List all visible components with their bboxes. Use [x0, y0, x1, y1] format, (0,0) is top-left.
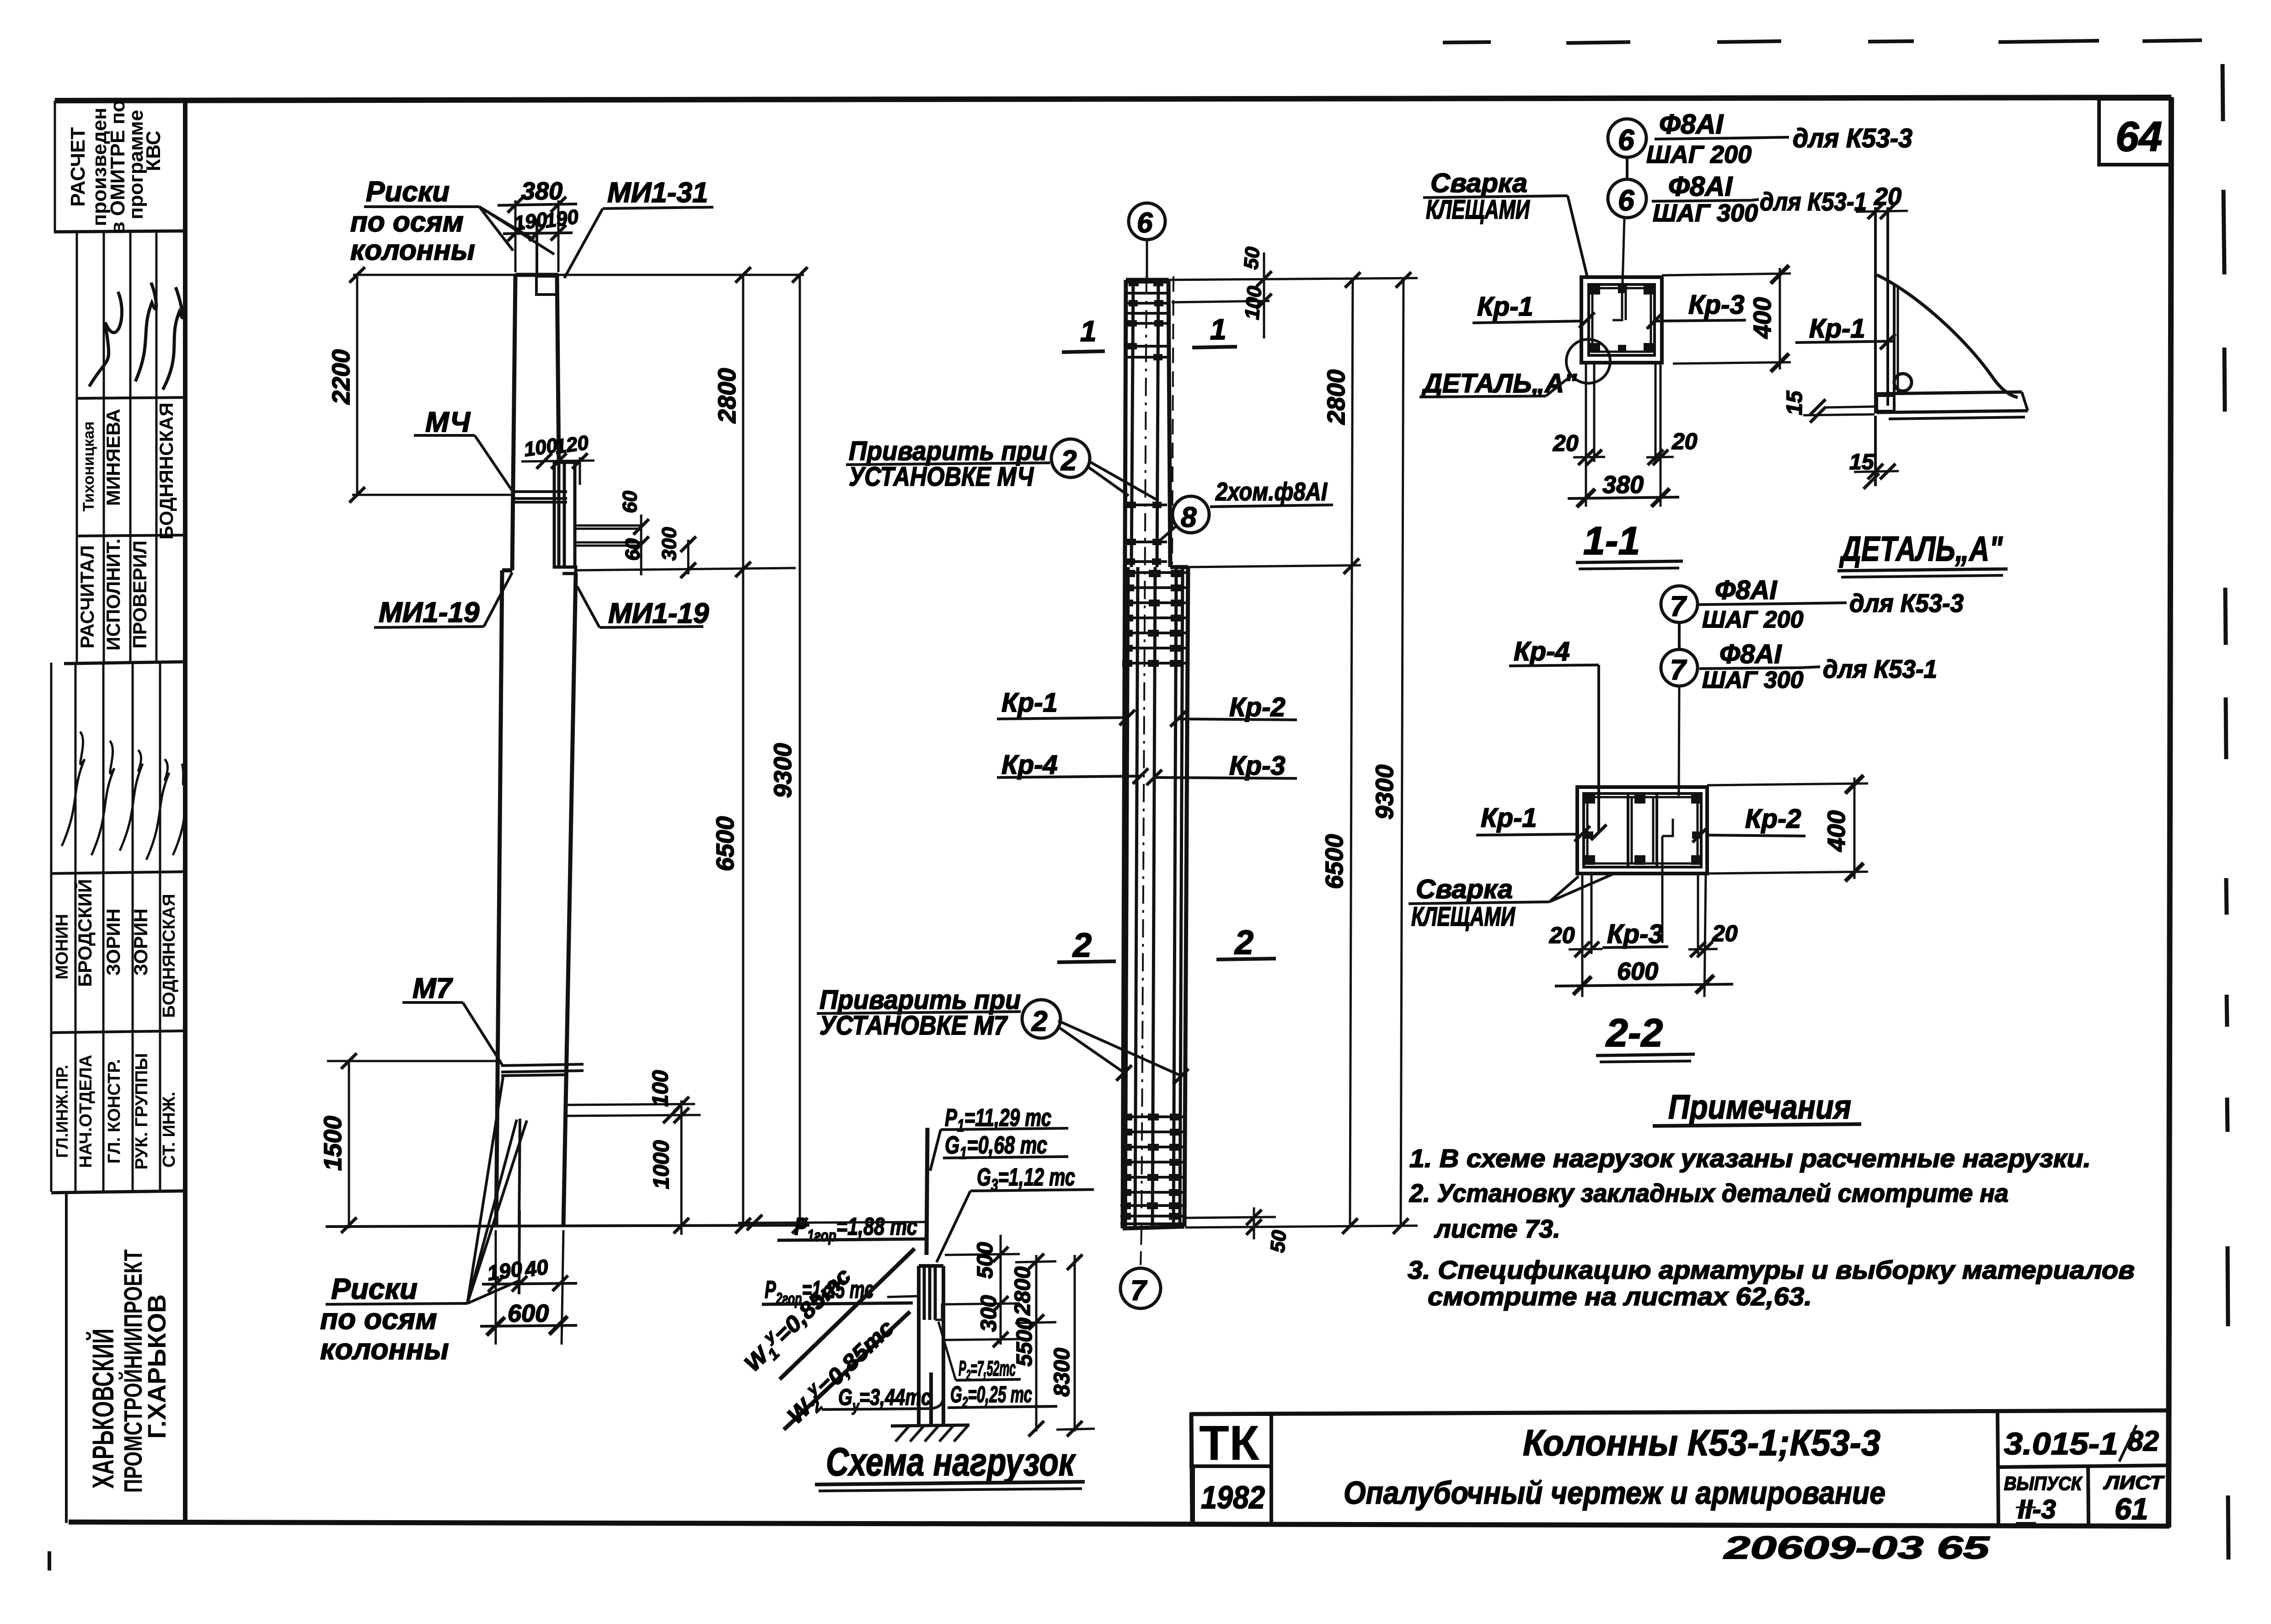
outer dashed trim line top: [1443, 40, 2202, 43]
section 2-2 concrete outline: [1577, 787, 1707, 874]
svg-text:40: 40: [523, 1254, 550, 1281]
bottom cage line: [1185, 1217, 1276, 1218]
detail A vertical plate with bar Kr-1: [1874, 207, 1877, 413]
embedded plate M7: [501, 1064, 584, 1076]
rebar dots (sec 2-2): [1584, 794, 1702, 865]
column K53 formwork outline: top/left/right/bottom: [496, 275, 576, 1227]
svg-text:400: 400: [1823, 810, 1850, 852]
trim mark bottom-left: [48, 1551, 51, 1570]
svg-text:1. В схеме нагрузок указаны ра: 1. В схеме нагрузок указаны расчетные на…: [1409, 1144, 2091, 1173]
dimension 1500: [348, 1060, 350, 1228]
weld blobs upper: [1126, 279, 1163, 565]
embedded plate MCh: [512, 492, 567, 502]
svg-text:Схема нагрузок: Схема нагрузок: [826, 1440, 1077, 1484]
dimension 100/120: [521, 461, 595, 461]
longitudinal bars upper: [1131, 280, 1158, 567]
dimension 2800/6500 (mid view): [1350, 280, 1353, 1227]
svg-text:61: 61: [2115, 1492, 2148, 1526]
svg-text:20: 20: [1712, 921, 1738, 946]
P1gor arrow line: [738, 1222, 927, 1223]
svg-text:НАЧ.ОТДЕЛА: НАЧ.ОТДЕЛА: [76, 1055, 96, 1168]
svg-text:ДЕТАЛЬ„А": ДЕТАЛЬ„А": [1839, 530, 2003, 568]
svg-text:для К53-3: для К53-3: [1849, 589, 1964, 617]
svg-text:МИНЯЕВА: МИНЯЕВА: [102, 409, 124, 506]
svg-text:ДЕТАЛЬ„А": ДЕТАЛЬ„А": [1421, 369, 1577, 398]
dimension 300: [687, 540, 690, 574]
riska level line (1000 above bottom): [565, 1115, 701, 1116]
circle mark 6 above column: [1129, 203, 1165, 240]
svg-text:по осям: по осям: [320, 1302, 437, 1335]
sheet top border: [55, 97, 2171, 101]
dimension 400 (sec 1-1): [1662, 273, 1791, 275]
bottom level extension line: [1185, 1226, 1418, 1227]
signatures upper (squiggles): [89, 283, 183, 390]
svg-text:Кр-1: Кр-1: [1477, 292, 1533, 322]
svg-text:2: 2: [1072, 926, 1092, 964]
names row 1 (rotated): [80, 402, 177, 540]
svg-text:400: 400: [1749, 297, 1776, 339]
svg-text:МИ1-19: МИ1-19: [379, 597, 480, 628]
stirrup loops: [1584, 793, 1657, 867]
stirrups lower dense bottom: [1120, 1117, 1185, 1224]
detail A circle on corner: [1566, 339, 1610, 383]
svg-text:3.015-1: 3.015-1: [2004, 1426, 2118, 1461]
circle 6 with mark f8AI shag 200 dlya K53-3: [1608, 119, 1646, 157]
svg-text:100: 100: [648, 1070, 673, 1107]
svg-text:Примечания: Примечания: [1668, 1088, 1851, 1126]
svg-text:смотрите на листах 62,63.: смотрите на листах 62,63.: [1428, 1282, 1812, 1311]
dims 500/300 chain: [1000, 1235, 1002, 1345]
svg-text:ШАГ 200: ШАГ 200: [1702, 606, 1804, 633]
svg-text:ИСПОЛНИТ.: ИСПОЛНИТ.: [102, 539, 124, 651]
svg-text:190: 190: [486, 1257, 524, 1285]
svg-text:Сварка: Сварка: [1416, 874, 1513, 904]
svg-text:2-2: 2-2: [1605, 1011, 1663, 1055]
svg-text:60: 60: [619, 491, 641, 513]
top extension line (9300 chain): [1168, 278, 1418, 280]
circle mark 7 below column: [1141, 1231, 1141, 1268]
step level extension line: [576, 568, 796, 570]
job titles row 1 (rotated): [76, 539, 150, 651]
svg-text:20: 20: [1549, 922, 1575, 948]
stamp row line lower 2: [51, 1031, 185, 1033]
label riski po osyam kolonny (bottom): [320, 1272, 449, 1366]
svg-text:64: 64: [2116, 113, 2162, 160]
svg-text:Тихоницкая: Тихоницкая: [80, 421, 97, 511]
force line P1 (vertical arrow): [927, 1128, 927, 1255]
svg-text:9300: 9300: [769, 743, 797, 798]
svg-text:БОДНЯНСКАЯ: БОДНЯНСКАЯ: [160, 894, 179, 1018]
console MI1-19: [554, 462, 576, 573]
svg-text:2800: 2800: [1011, 1266, 1035, 1316]
console bolts: [575, 525, 641, 546]
dimension 15 (bar offset, bottom): [1874, 416, 1877, 486]
svg-text:1500: 1500: [319, 1116, 347, 1171]
svg-text:1: 1: [1210, 313, 1227, 346]
svg-text:СТ. ИНЖ.: СТ. ИНЖ.: [160, 1092, 179, 1168]
svg-text:БОДНЯНСКАЯ: БОДНЯНСКАЯ: [155, 402, 177, 540]
svg-text:ШАГ 300: ШАГ 300: [1653, 199, 1758, 227]
svg-text:Кр-2: Кр-2: [1745, 804, 1801, 834]
svg-text:листе 73.: листе 73.: [1434, 1214, 1560, 1243]
svg-text:2: 2: [1031, 1006, 1047, 1037]
dimension 9300 (mid view): [1401, 280, 1403, 1227]
dimension 380 (top): [514, 200, 517, 272]
stamp table upper: verticals: [104, 231, 156, 663]
svg-text:6: 6: [1618, 123, 1634, 156]
svg-text:ЗОРИН: ЗОРИН: [130, 909, 151, 976]
dimension 600 (bottom): [480, 1325, 577, 1326]
svg-text:2хом.ф8АІ: 2хом.ф8АІ: [1215, 477, 1328, 506]
svg-text:РУК. ГРУППЫ: РУК. ГРУППЫ: [132, 1053, 151, 1170]
label privarit pri ustanovke M7 + circle 2: [819, 985, 1021, 1040]
institute name (rotated big): [86, 1249, 171, 1493]
circle 8 + label 2 khom f8AI: [1173, 496, 1209, 533]
right cells: [1998, 1412, 1998, 1525]
dimension 380 (sec 1-1): [1568, 497, 1679, 498]
svg-text:ШАГ 200: ШАГ 200: [1646, 141, 1751, 168]
svg-text:5500: 5500: [1012, 1318, 1037, 1367]
dimension 190/190: [503, 233, 573, 234]
dimensions 20/20 (sec 2-2): [1569, 874, 1718, 997]
dimension 2200: [356, 275, 359, 495]
svg-text:20: 20: [1553, 430, 1579, 456]
svg-text:20: 20: [1671, 429, 1698, 454]
wind load W2 (diagonal): [784, 1312, 910, 1430]
svg-text:8300: 8300: [1050, 1348, 1074, 1397]
svg-text:6: 6: [1137, 207, 1153, 239]
leader from circle 7 into section: [1679, 686, 1679, 796]
stamp row line: [77, 535, 185, 536]
svg-text:ХАРЬКОВСКИЙ: ХАРЬКОВСКИЙ: [86, 1329, 120, 1489]
rebar dots: [1589, 285, 1655, 353]
svg-text:100: 100: [1241, 285, 1266, 321]
svg-text:ЛИСТ: ЛИСТ: [2103, 1472, 2165, 1493]
concrete break line (arc): [1877, 275, 2018, 397]
svg-text:для К53-3: для К53-3: [1793, 123, 1912, 153]
dim 50 (bottom): [1246, 1210, 1262, 1225]
signatures lower (squiggles): [62, 732, 185, 860]
svg-text:колонны: колонны: [350, 235, 475, 266]
svg-text:1000: 1000: [649, 1140, 674, 1189]
job titles row 2 (rotated): [53, 1053, 179, 1170]
ground line with hatching: [891, 1425, 969, 1426]
svg-text:600: 600: [1617, 958, 1658, 985]
svg-text:Колонны К53-1;К53-3: Колонны К53-1;К53-3: [1523, 1422, 1880, 1463]
svg-text:7: 7: [1670, 654, 1687, 686]
svg-text:Кр-3: Кр-3: [1229, 751, 1285, 781]
dimensions 20/20 (sec 1-1): [1573, 363, 1674, 507]
axis mark at column top: [536, 219, 538, 273]
svg-text:Кр-1: Кр-1: [1002, 688, 1058, 718]
leader fan to axis marks (bottom): [467, 1077, 527, 1303]
label privarit pri ustanovke MCh + circle 2: [849, 436, 1047, 492]
stamp table lower: verticals: [75, 663, 160, 1192]
svg-text:для К53-1: для К53-1: [1760, 187, 1867, 216]
column axis (dash-dot): [1141, 276, 1146, 1231]
stamp row line: [77, 397, 185, 398]
hidden edge dashed line: [1172, 276, 1173, 564]
svg-text:МИ1-19: МИ1-19: [608, 598, 709, 629]
svg-text:Кр-3: Кр-3: [1688, 290, 1745, 320]
svg-text:ГЛ. КОНСТР.: ГЛ. КОНСТР.: [105, 1059, 124, 1163]
svg-text:ЗОРИН: ЗОРИН: [102, 909, 124, 976]
weld plate washer: [1877, 396, 1894, 411]
stirrups upper group: [1124, 282, 1168, 562]
svg-text:Ф8АІ: Ф8АІ: [1715, 575, 1778, 605]
svg-text:для К53-1: для К53-1: [1823, 654, 1937, 683]
embedded plate MI1-31 at column top: [536, 276, 557, 295]
page number 64 box: [2099, 99, 2171, 165]
svg-text:Ф8АІ: Ф8АІ: [1719, 639, 1782, 669]
label riski po osyam kolonny (top): [350, 176, 475, 266]
svg-text:Кр-1: Кр-1: [1809, 314, 1865, 343]
svg-text:1: 1: [1080, 315, 1097, 348]
svg-text:82: 82: [2127, 1426, 2159, 1457]
svg-text:Кр-2: Кр-2: [1229, 692, 1285, 722]
svg-text:6500: 6500: [712, 816, 739, 871]
TK logo box: [1191, 1414, 1271, 1466]
dimension 600 (sec 2-2): [1555, 984, 1733, 986]
step extension line (2800/6500 junction): [1188, 565, 1361, 567]
svg-text:Кр-4: Кр-4: [1002, 750, 1058, 780]
load scheme column: [919, 1266, 943, 1426]
svg-text:50: 50: [1266, 1229, 1291, 1254]
svg-text:50: 50: [1240, 246, 1264, 270]
svg-text:380: 380: [1602, 471, 1644, 498]
svg-text:ТК: ТК: [1199, 1415, 1260, 1470]
svg-text:300: 300: [977, 1295, 1001, 1332]
dim 100/50 near top: [1172, 301, 1269, 302]
svg-text:Г.ХАРЬКОВ: Г.ХАРЬКОВ: [142, 1294, 171, 1439]
dimension 2800 (left view): [742, 275, 745, 1227]
outer dashed trim line right: [2223, 64, 2228, 1560]
label svarka kleshchami (bottom): [1411, 874, 1516, 932]
stirrups lower dense top: [1124, 573, 1188, 663]
column top branch lines: [924, 1267, 942, 1320]
section 1-1 concrete outline: [1581, 277, 1662, 363]
svg-text:ІІ-3: ІІ-3: [2018, 1495, 2056, 1524]
top level extension line: [353, 274, 804, 276]
svg-text:2200: 2200: [327, 349, 355, 405]
svg-text:ГЛ.ИНЖ.ПР.: ГЛ.ИНЖ.ПР.: [53, 1065, 71, 1158]
svg-text:300: 300: [658, 527, 680, 561]
stamp top note box: [54, 101, 56, 232]
svg-text:ВЫПУСК: ВЫПУСК: [2004, 1473, 2083, 1494]
svg-text:2800: 2800: [1323, 370, 1350, 425]
dimension 190/40 (bottom): [495, 1230, 497, 1345]
wind load W1 (diagonal): [780, 1249, 915, 1379]
P2 force line: [929, 1372, 933, 1426]
stirrup loop: [1589, 284, 1655, 355]
svg-text:20: 20: [1874, 183, 1901, 210]
svg-text:УСТАНОВКЕ МЧ: УСТАНОВКЕ МЧ: [849, 462, 1034, 492]
svg-text:9300: 9300: [1371, 765, 1398, 820]
svg-text:1982: 1982: [1201, 1479, 1265, 1515]
svg-text:Опалубочный чертеж и армирован: Опалубочный чертеж и армирование: [1344, 1475, 1885, 1511]
svg-text:Кр-3: Кр-3: [1607, 919, 1663, 949]
svg-text:МОНИН: МОНИН: [53, 914, 72, 979]
svg-text:КЛЕЩАМИ: КЛЕЩАМИ: [1426, 195, 1530, 225]
leader G3 to column top: [937, 1191, 970, 1262]
svg-text:8: 8: [1181, 502, 1197, 533]
column K53 reinforcement outline: [1123, 280, 1188, 1228]
leader from circle 6 into section: [1623, 218, 1624, 284]
axis mark lower: [519, 1119, 520, 1227]
dimension 400 (sec 2-2): [1707, 783, 1868, 785]
svg-text:РАСЧЕТ: РАСЧЕТ: [67, 127, 89, 207]
sheet right border: [2169, 97, 2171, 1528]
svg-text:2: 2: [1234, 923, 1253, 961]
svg-text:120: 120: [554, 431, 590, 458]
title block outline: [1191, 1410, 2170, 1414]
dimension 9300 (left view): [799, 275, 801, 1227]
svg-text:ШАГ 300: ШАГ 300: [1702, 667, 1804, 693]
horizontal plate (detail A bottom): [1877, 392, 2022, 394]
svg-text:2. Установку закладных деталей: 2. Установку закладных деталей смотрите …: [1409, 1179, 2009, 1207]
dims 2800/5500 chain: [1035, 1255, 1038, 1431]
stamp strip right edge: [183, 101, 187, 1525]
svg-text:600: 600: [508, 1300, 549, 1327]
svg-text:КВС: КВС: [142, 131, 165, 172]
svg-text:Ф8АІ: Ф8АІ: [1659, 109, 1724, 139]
svg-text:60: 60: [621, 538, 644, 561]
weld blobs bottom zone: [1121, 1114, 1181, 1220]
svg-text:1-1: 1-1: [1583, 519, 1640, 563]
svg-text:Риски: Риски: [366, 176, 450, 208]
circle 7 with mark f8AI shag 300 dlya K53-1: [1678, 622, 1681, 649]
riska level line upper (100 above): [567, 1104, 695, 1105]
svg-text:6: 6: [1618, 184, 1634, 217]
svg-text:500: 500: [973, 1242, 997, 1279]
leader fan to axis marks: [479, 207, 554, 254]
MCh level line: [352, 494, 512, 496]
weld circle: [1894, 374, 1912, 391]
svg-text:МИ1-31: МИ1-31: [607, 177, 708, 209]
stamp row line: [64, 662, 185, 664]
svg-text:190: 190: [544, 205, 580, 232]
stamp row line lower: [51, 872, 185, 874]
svg-text:РАСЧИТАЛ: РАСЧИТАЛ: [76, 545, 98, 649]
small step mark inside (Kr-3 leader): [1662, 819, 1673, 836]
svg-text:Кр-1: Кр-1: [1481, 803, 1537, 833]
svg-text:УСТАНОВКЕ М7: УСТАНОВКЕ М7: [819, 1011, 1008, 1040]
svg-text:15: 15: [1783, 390, 1807, 415]
svg-text:КЛЕЩАМИ: КЛЕЩАМИ: [1411, 902, 1516, 932]
svg-text:2800: 2800: [713, 368, 741, 423]
sheet bottom border: [69, 1522, 2169, 1526]
svg-text:МЧ: МЧ: [425, 407, 471, 438]
bottom level line: [326, 1225, 809, 1227]
names row 2 (rotated): [53, 879, 179, 1018]
svg-text:Сварка: Сварка: [1430, 168, 1527, 198]
svg-text:ПРОВЕРИЛ: ПРОВЕРИЛ: [129, 541, 150, 649]
svg-text:2: 2: [1061, 445, 1077, 477]
svg-text:7: 7: [1670, 591, 1687, 622]
svg-text:20609-03 65: 20609-03 65: [1723, 1530, 1990, 1565]
svg-text:по осям: по осям: [350, 206, 464, 238]
svg-text:БРОДСКИЙ: БРОДСКИЙ: [74, 879, 96, 987]
1982 box: [1193, 1466, 1271, 1525]
svg-text:6500: 6500: [1321, 834, 1348, 889]
dimension 100/1000: [680, 1100, 683, 1235]
svg-text:Кр-4: Кр-4: [1514, 637, 1570, 666]
svg-text:М7: М7: [412, 973, 453, 1004]
longitudinal bars lower: [1125, 567, 1183, 1228]
svg-text:Ф8АІ: Ф8АІ: [1668, 171, 1733, 202]
weld blobs lower-top zone: [1122, 570, 1183, 667]
svg-text:380: 380: [521, 177, 562, 205]
dimension 60/60 (bolts): [640, 515, 643, 575]
svg-text:Риски: Риски: [331, 1272, 418, 1305]
sheet left border: [76, 231, 78, 663]
svg-text:7: 7: [1130, 1275, 1147, 1307]
svg-text:3. Спецификацию арматуры и выб: 3. Спецификацию арматуры и выборку матер…: [1408, 1255, 2135, 1284]
stamp row line lower 3: [51, 1191, 185, 1193]
svg-text:колонны: колонны: [320, 1333, 449, 1366]
circle 7 with mark f8AI shag 200 dlya K53-3: [1661, 586, 1698, 622]
label svarka kleshchami (top): [1426, 168, 1530, 225]
circle 6 with mark f8AI shag 300 dlya K53-1: [1626, 157, 1628, 179]
dim 8300: [1074, 1255, 1076, 1431]
